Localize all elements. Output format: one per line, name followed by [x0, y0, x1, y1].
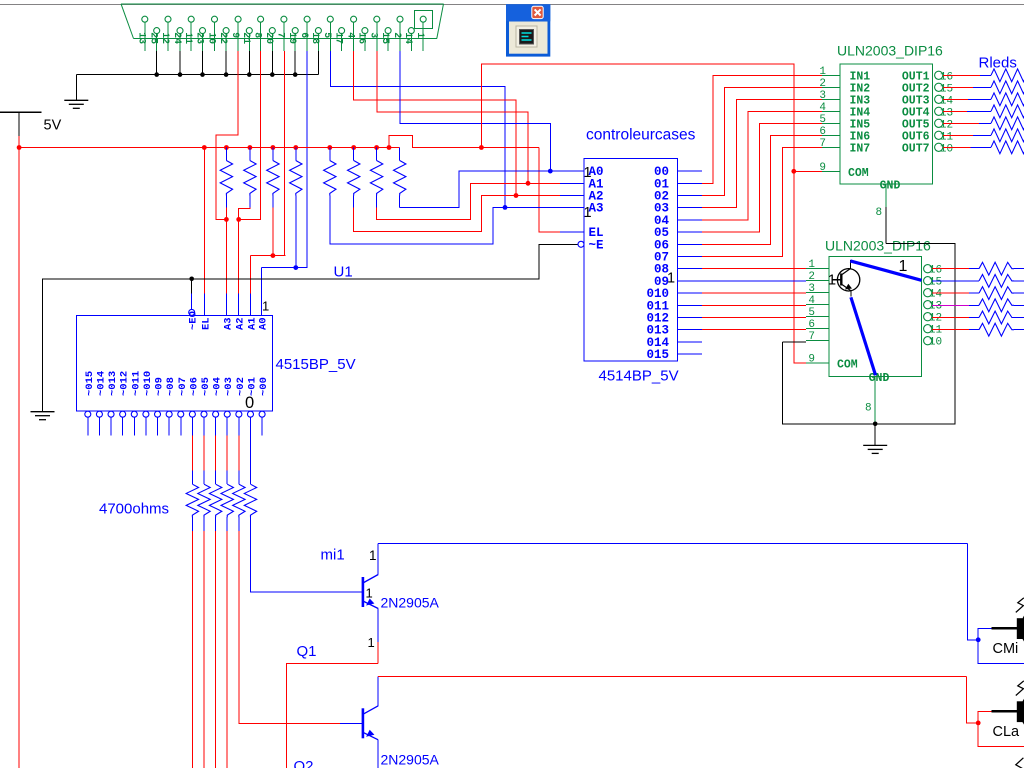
svg-text:CMi: CMi — [993, 641, 1019, 657]
svg-text:14: 14 — [929, 289, 943, 301]
svg-text:5: 5 — [322, 32, 333, 38]
svg-text:~015: ~015 — [84, 371, 96, 396]
svg-text:2: 2 — [392, 32, 403, 38]
svg-text:12: 12 — [160, 32, 171, 44]
svg-text:~013: ~013 — [107, 371, 119, 396]
svg-text:10: 10 — [929, 337, 942, 349]
svg-text:1: 1 — [584, 205, 592, 221]
svg-text:1: 1 — [415, 32, 426, 38]
svg-text:COM: COM — [848, 167, 869, 180]
svg-text:EL: EL — [200, 317, 212, 330]
svg-text:~012: ~012 — [119, 371, 131, 396]
svg-text:20: 20 — [264, 32, 275, 44]
svg-text:13: 13 — [137, 32, 148, 44]
svg-text:controleurcases: controleurcases — [586, 127, 696, 144]
svg-text:16: 16 — [929, 265, 942, 277]
svg-text:~05: ~05 — [200, 377, 212, 396]
svg-text:3: 3 — [808, 283, 815, 295]
svg-text:1: 1 — [899, 258, 908, 275]
svg-text:~014: ~014 — [95, 371, 107, 396]
svg-text:Rleds: Rleds — [979, 55, 1017, 72]
svg-text:ULN2003_DIP16: ULN2003_DIP16 — [825, 238, 931, 254]
svg-text:OUT7: OUT7 — [902, 142, 930, 155]
svg-text:GND: GND — [880, 180, 901, 193]
svg-text:21: 21 — [241, 32, 252, 44]
svg-text:15: 15 — [380, 32, 391, 44]
svg-text:7: 7 — [819, 138, 826, 150]
svg-text:1: 1 — [667, 271, 675, 287]
svg-text:5: 5 — [819, 114, 826, 126]
svg-text:6: 6 — [819, 126, 826, 138]
svg-text:6: 6 — [808, 319, 815, 331]
svg-text:14: 14 — [403, 32, 414, 44]
svg-text:12: 12 — [929, 313, 942, 325]
svg-text:4: 4 — [819, 102, 826, 114]
svg-text:~E: ~E — [589, 238, 604, 252]
svg-text:8: 8 — [876, 207, 883, 219]
svg-text:1: 1 — [584, 165, 592, 181]
svg-text:2N2905A: 2N2905A — [381, 752, 440, 768]
svg-text:GND: GND — [869, 372, 890, 385]
svg-text:~02: ~02 — [235, 377, 247, 396]
svg-text:A0: A0 — [258, 317, 270, 330]
svg-text:2: 2 — [819, 78, 826, 90]
svg-text:15: 15 — [940, 83, 953, 95]
svg-text:4700ohms: 4700ohms — [99, 501, 169, 518]
svg-text:5: 5 — [808, 307, 815, 319]
svg-text:015: 015 — [646, 348, 669, 362]
svg-text:13: 13 — [929, 301, 942, 313]
svg-text:16: 16 — [940, 71, 953, 83]
svg-text:mi1: mi1 — [321, 547, 345, 564]
svg-text:9: 9 — [230, 32, 241, 38]
svg-text:16: 16 — [357, 32, 368, 44]
svg-text:4514BP_5V: 4514BP_5V — [599, 368, 679, 385]
svg-text:IN7: IN7 — [850, 142, 871, 155]
svg-text:A2: A2 — [235, 317, 247, 330]
svg-text:7: 7 — [276, 32, 287, 38]
svg-text:10: 10 — [940, 143, 953, 155]
svg-text:1: 1 — [808, 259, 815, 271]
svg-text:6: 6 — [299, 32, 310, 38]
svg-text:24: 24 — [172, 32, 183, 44]
svg-text:9: 9 — [808, 354, 815, 366]
svg-text:ULN2003_DIP16: ULN2003_DIP16 — [837, 43, 943, 59]
svg-text:4515BP_5V: 4515BP_5V — [276, 356, 356, 373]
svg-text:1: 1 — [828, 272, 836, 289]
svg-text:~00: ~00 — [258, 377, 270, 396]
svg-text:COM: COM — [837, 359, 858, 372]
svg-text:~06: ~06 — [188, 377, 200, 396]
svg-text:4: 4 — [808, 295, 815, 307]
svg-text:U1: U1 — [334, 264, 353, 281]
svg-text:17: 17 — [333, 32, 344, 44]
svg-text:3: 3 — [369, 32, 380, 38]
svg-text:~03: ~03 — [223, 377, 235, 396]
svg-text:~010: ~010 — [142, 371, 154, 396]
svg-text:~EO: ~EO — [188, 311, 200, 330]
svg-text:~09: ~09 — [154, 377, 166, 396]
svg-text:7: 7 — [808, 331, 815, 343]
svg-text:1: 1 — [368, 635, 375, 650]
svg-text:11: 11 — [940, 131, 954, 143]
svg-text:8: 8 — [865, 403, 872, 415]
svg-text:23: 23 — [194, 32, 205, 44]
svg-text:1: 1 — [819, 66, 826, 78]
svg-text:10: 10 — [206, 32, 217, 44]
svg-text:2N2905A: 2N2905A — [381, 595, 440, 611]
svg-text:2: 2 — [808, 271, 815, 283]
svg-text:A3: A3 — [222, 317, 234, 330]
svg-text:18: 18 — [310, 32, 321, 44]
svg-text:Q2: Q2 — [294, 758, 314, 768]
svg-text:19: 19 — [287, 32, 298, 44]
svg-text:~07: ~07 — [177, 377, 189, 396]
svg-text:4: 4 — [345, 32, 356, 38]
svg-text:1: 1 — [366, 586, 373, 601]
svg-text:~01: ~01 — [246, 377, 258, 396]
svg-text:13: 13 — [940, 107, 953, 119]
svg-text:11: 11 — [183, 32, 194, 44]
svg-text:~011: ~011 — [130, 371, 142, 396]
svg-text:CLa: CLa — [993, 724, 1021, 740]
svg-text:22: 22 — [218, 32, 229, 44]
svg-text:15: 15 — [929, 277, 942, 289]
svg-text:14: 14 — [940, 95, 954, 107]
svg-text:3: 3 — [819, 90, 826, 102]
svg-text:Q1: Q1 — [297, 643, 317, 660]
svg-text:1: 1 — [369, 548, 377, 563]
svg-text:11: 11 — [929, 325, 943, 337]
svg-text:~08: ~08 — [165, 377, 177, 396]
svg-text:1: 1 — [262, 299, 269, 314]
svg-text:25: 25 — [149, 32, 160, 44]
svg-text:12: 12 — [940, 119, 953, 131]
svg-text:8: 8 — [252, 32, 263, 38]
svg-text:5V: 5V — [44, 118, 62, 134]
svg-text:~04: ~04 — [212, 377, 224, 396]
svg-text:9: 9 — [819, 162, 826, 174]
